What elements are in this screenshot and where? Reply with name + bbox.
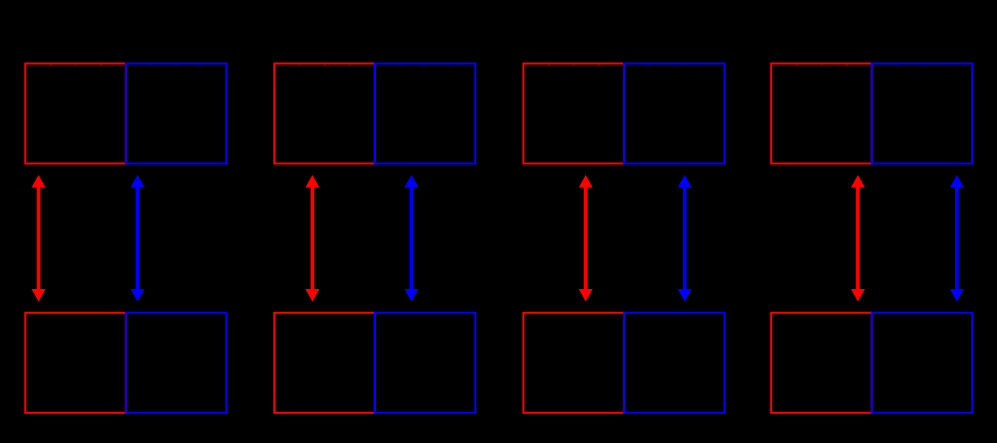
group 2 top blue square: [375, 64, 476, 164]
group 3 red double arrow: [579, 175, 593, 302]
group 1 red double arrow: [32, 175, 46, 302]
group 2 blue double arrow: [404, 175, 418, 302]
group 1 bottom red square: [25, 313, 126, 413]
group 3 top red square ticks: [549, 65, 599, 67]
group 3 bottom blue square: [624, 313, 725, 413]
group 4 red double arrow: [851, 175, 865, 302]
group 1 bottom blue square: [126, 313, 227, 413]
group 1 top red square: [25, 64, 126, 164]
group 2 top red square: [274, 64, 375, 164]
group 4 top red square: [771, 64, 872, 164]
group 3 top blue square ticks: [649, 65, 699, 67]
group 2 top red square ticks: [299, 65, 349, 67]
group 4 top blue square ticks: [897, 65, 947, 67]
group 2 bottom blue square: [375, 313, 476, 413]
group 1 top red square ticks: [50, 65, 100, 67]
group 4 bottom red square: [771, 313, 872, 413]
group 4 top red square ticks: [796, 65, 846, 67]
group 3 top red square: [523, 64, 624, 164]
group 3 top blue square: [624, 64, 725, 164]
group 3 blue double arrow: [678, 175, 692, 302]
group 1 top blue square: [126, 64, 227, 164]
group 2 top blue square ticks: [400, 65, 450, 67]
group 4 blue double arrow: [950, 175, 964, 302]
group 3 bottom red square: [523, 313, 624, 413]
group 2 red double arrow: [305, 175, 319, 302]
group 1 blue double arrow: [131, 175, 145, 302]
group 2 bottom red square: [274, 313, 375, 413]
group 4 top blue square: [872, 64, 973, 164]
group 4 bottom blue square: [872, 313, 973, 413]
group 1 top blue square ticks: [151, 65, 201, 67]
